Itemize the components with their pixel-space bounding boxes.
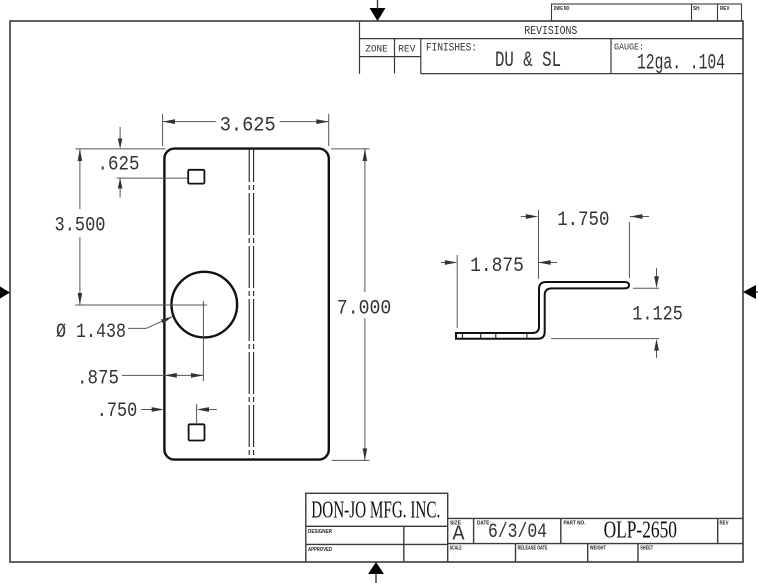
- svg-text:1.750: 1.750: [557, 209, 609, 232]
- svg-text:1.875: 1.875: [470, 255, 524, 278]
- svg-text:3.500: 3.500: [55, 215, 106, 238]
- svg-text:ZONE: ZONE: [365, 44, 387, 55]
- svg-text:12ga. .104: 12ga. .104: [637, 51, 725, 76]
- svg-text:SH: SH: [693, 6, 700, 12]
- svg-text:Ø 1.438: Ø 1.438: [56, 321, 126, 344]
- svg-text:DESIGNER: DESIGNER: [308, 529, 332, 535]
- svg-text:DON-JO MFG. INC.: DON-JO MFG. INC.: [311, 498, 440, 524]
- svg-text:6/3/04: 6/3/04: [488, 521, 547, 544]
- svg-text:OLP-2650: OLP-2650: [604, 518, 677, 544]
- svg-text:RELEASE DATE: RELEASE DATE: [518, 546, 548, 552]
- svg-text:.750: .750: [97, 400, 138, 423]
- svg-text:REV: REV: [398, 44, 415, 55]
- svg-text:7.000: 7.000: [337, 298, 392, 321]
- svg-text:SHEET: SHEET: [640, 546, 653, 552]
- svg-text:WEIGHT: WEIGHT: [590, 546, 606, 552]
- svg-text:3.625: 3.625: [220, 114, 276, 137]
- svg-text:1.125: 1.125: [632, 303, 683, 326]
- svg-text:PART NO.: PART NO.: [564, 521, 586, 527]
- svg-text:REV: REV: [720, 521, 729, 527]
- svg-text:REVISIONS: REVISIONS: [524, 25, 577, 38]
- svg-text:DWG NO: DWG NO: [554, 6, 570, 12]
- svg-text:FINISHES:: FINISHES:: [426, 43, 477, 55]
- svg-text:SCALE: SCALE: [450, 546, 462, 552]
- svg-text:.625: .625: [98, 154, 140, 177]
- svg-text:APPROVED: APPROVED: [308, 547, 332, 553]
- svg-text:DU & SL: DU & SL: [495, 48, 561, 73]
- svg-text:REV: REV: [720, 6, 730, 12]
- svg-text:A: A: [453, 524, 465, 547]
- svg-text:.875: .875: [77, 368, 119, 391]
